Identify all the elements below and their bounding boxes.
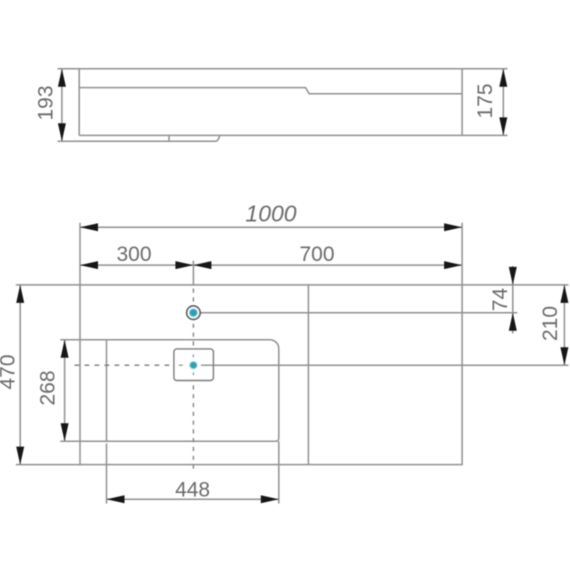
dimension line 448 <box>107 498 279 500</box>
drain centerline solid extension to 210 <box>213 364 568 366</box>
dimension line 1000 <box>80 226 462 228</box>
centerlines (dashed) <box>75 289 194 471</box>
268 top arrow <box>61 340 69 358</box>
1000 right arrow <box>444 223 462 231</box>
470 bottom extension <box>16 464 80 466</box>
700 right arrow <box>444 261 462 269</box>
horizontal dashed centerline left of drain <box>75 364 174 366</box>
448 right arrow <box>261 495 279 503</box>
1000 right extension <box>461 223 463 285</box>
drain teal dot <box>190 362 197 369</box>
448 left arrow <box>107 495 125 503</box>
vertical centerline through faucet and drain <box>192 289 194 471</box>
svg-text:74: 74 <box>489 288 512 312</box>
268 bottom arrow <box>61 423 69 441</box>
faucet teal dot <box>189 309 197 317</box>
470 bottom arrow <box>16 447 24 465</box>
inner ledge line with step <box>79 88 462 94</box>
175 top extension <box>462 68 507 70</box>
175 top arrow <box>499 69 507 87</box>
dimension line 193 <box>61 69 63 141</box>
268 bottom extension <box>60 440 106 442</box>
faucet centerline extension to 74 <box>201 312 518 314</box>
448 right extension <box>278 441 280 503</box>
dimension line 300 / 700 <box>80 264 462 266</box>
drain center mark <box>179 354 194 375</box>
svg-text:210: 210 <box>539 306 562 341</box>
300 right arrow <box>175 261 193 269</box>
top edge extension to 74 and 210 <box>462 284 568 286</box>
drain square <box>174 349 214 381</box>
svg-text:175: 175 <box>474 83 497 118</box>
1000 left extension <box>79 223 81 285</box>
faucet hole <box>187 306 201 320</box>
470 top arrow <box>16 285 24 303</box>
main bottom edge (with right extension) <box>79 134 507 136</box>
74 top arrow (outside) <box>509 267 517 285</box>
hidden seam tick <box>168 135 170 141</box>
dimension line 175 <box>502 69 504 136</box>
470 top extension <box>16 284 80 286</box>
448 left extension <box>106 444 108 504</box>
svg-text:700: 700 <box>299 243 334 266</box>
basin outline <box>107 340 279 442</box>
1000 left arrow <box>80 223 98 231</box>
175 bottom arrow <box>499 117 507 135</box>
svg-text:300: 300 <box>116 243 151 266</box>
210 top arrow <box>560 285 568 303</box>
svg-text:470: 470 <box>0 354 20 389</box>
dimension line 74 <box>512 266 514 334</box>
countertop outline <box>80 285 462 465</box>
dimension line 470 <box>19 285 21 465</box>
193 bottom arrow <box>58 123 66 141</box>
right edge <box>461 69 463 136</box>
svg-text:1000: 1000 <box>245 201 296 227</box>
268 top extension <box>60 339 106 341</box>
dimension line 268 <box>64 340 66 442</box>
divider line <box>307 285 309 465</box>
left edge <box>78 69 80 136</box>
svg-text:448: 448 <box>175 479 210 502</box>
basin bottom protrusion line <box>58 135 220 141</box>
300 left arrow <box>80 261 98 269</box>
arrows <box>16 69 568 504</box>
74 bottom arrow (outside) <box>509 313 517 331</box>
193 top arrow <box>58 69 66 87</box>
top edge line (with extensions) <box>58 68 508 70</box>
dimension line 210 <box>563 285 565 365</box>
700 left arrow <box>193 261 211 269</box>
middle extension at 300/700 junction <box>192 261 194 285</box>
210 bottom arrow <box>560 347 568 365</box>
drain centerline segment inside square <box>201 364 213 366</box>
svg-text:268: 268 <box>37 370 60 405</box>
svg-text:193: 193 <box>35 85 58 120</box>
